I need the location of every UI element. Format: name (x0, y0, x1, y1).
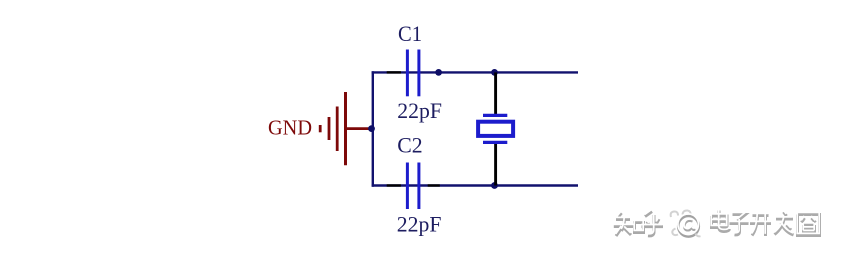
svg-text:22pF: 22pF (397, 98, 442, 123)
watermark zhihu (614, 208, 820, 236)
char hu (642, 212, 664, 236)
svg-text:GND: GND (268, 116, 312, 140)
crystal pin top (black) (494, 72, 497, 114)
svg-text:C1: C1 (398, 21, 422, 46)
char zhi (614, 213, 644, 236)
capacitor C2 pin left (black) (387, 184, 401, 186)
wire: bottom net horizontal (372, 184, 578, 186)
junction: top wire right of C1 (435, 69, 442, 76)
crystal pin bottom (black) (494, 144, 497, 186)
char kai (750, 216, 771, 237)
junction: crystal bottom (491, 182, 498, 189)
svg-text:22pF: 22pF (397, 212, 442, 237)
junction: GND to vertical bus (368, 125, 375, 132)
capacitor C1 pin left (black) (387, 71, 401, 73)
char fa (775, 212, 794, 235)
capacitor C2 pin right (black) (428, 184, 440, 186)
svg-text:C2: C2 (397, 133, 422, 158)
ground symbol (320, 92, 370, 165)
capacitor C1 (407, 50, 419, 97)
wire: left vertical bus (372, 71, 374, 187)
emboss highlight (614, 208, 820, 234)
char zi (730, 215, 749, 235)
char quan (798, 215, 820, 236)
capacitor C2 (407, 163, 419, 210)
junction: crystal top (491, 69, 498, 76)
char dian (712, 211, 730, 232)
wire: top net horizontal (372, 71, 578, 73)
crystal Y1 (478, 115, 513, 142)
mascot at-sign (671, 210, 701, 236)
